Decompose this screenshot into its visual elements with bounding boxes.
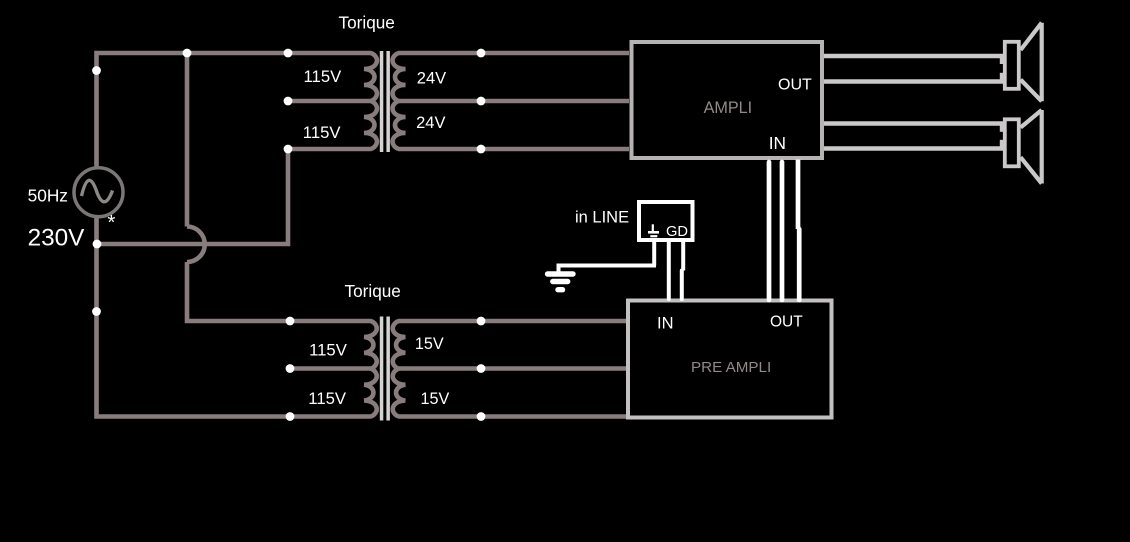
svg-text:in LINE: in LINE xyxy=(575,209,629,227)
wire: mid vertical from hop down then right to T2 primary top xyxy=(187,262,372,321)
svg-text:IN: IN xyxy=(769,133,786,153)
wire: left vertical from source bottom + bottom bus to T2 primary bottom xyxy=(97,217,372,417)
wire: source bottom branch right then up to T1 primary bottom xyxy=(97,149,372,244)
wire: T2 primary mid tap stub xyxy=(289,366,372,371)
node: top bus / mid vertical junction xyxy=(183,49,192,58)
wire: AMPLI OUT to speaker SP2 (+) xyxy=(824,121,1003,125)
wire: T2 secondary top to PRE AMPLI xyxy=(398,319,626,324)
svg-text:24V: 24V xyxy=(417,69,446,87)
svg-text:115V: 115V xyxy=(309,340,348,359)
speaker SP2 driver box xyxy=(1005,119,1019,166)
speaker SP2 horn xyxy=(1040,110,1044,184)
svg-text:OUT: OUT xyxy=(778,77,812,94)
svg-text:AMPLI: AMPLI xyxy=(704,99,753,117)
connector J1 pin 2 (to PRE AMPLI IN) xyxy=(667,242,671,299)
svg-text:24V: 24V xyxy=(416,114,445,132)
wire nib at SP2 (-) terminal xyxy=(1000,140,1003,147)
wire nib at SP2 (+) terminal xyxy=(1000,125,1003,132)
wire: AMPLI IN pin 1 to PRE AMPLI OUT xyxy=(767,162,772,300)
svg-text:115V: 115V xyxy=(308,389,347,408)
node: T1 primary top terminal xyxy=(284,49,293,58)
svg-text:115V: 115V xyxy=(303,123,342,142)
transformer T2 primary winding 115V/115V xyxy=(364,321,377,417)
node: source bottom junction xyxy=(93,240,102,249)
transformer T2 secondary winding 15V/15V xyxy=(393,321,406,417)
node: T2 secondary bottom terminal xyxy=(477,412,486,421)
wire: T1 secondary top to AMPLI xyxy=(398,51,629,56)
transformer T1 primary winding 115V/115V xyxy=(364,53,377,149)
svg-text:Torique: Torique xyxy=(339,12,395,32)
node: T1 secondary top terminal xyxy=(477,49,486,58)
svg-text:PRE AMPLI: PRE AMPLI xyxy=(691,359,771,376)
wire hop: arc over horizontal branch xyxy=(187,227,205,263)
PRE AMPLI box U2 xyxy=(628,301,832,418)
node: left vertical upper dot xyxy=(92,66,101,75)
wire: AMPLI OUT to speaker SP1 (+) xyxy=(824,54,1003,58)
wire: AMPLI OUT to speaker SP2 (-) xyxy=(824,146,1003,150)
ground symbol bar 1 xyxy=(548,271,574,276)
node: T2 secondary top terminal xyxy=(477,317,486,326)
wire: top bus from source to T1 primary top xyxy=(97,53,372,167)
wire nib at SP1 (-) terminal xyxy=(1000,73,1003,80)
svg-text:230V: 230V xyxy=(28,225,86,252)
in LINE connector J1 box xyxy=(639,202,693,240)
svg-text:OUT: OUT xyxy=(770,313,803,330)
wire: T1 secondary bottom to AMPLI xyxy=(398,147,629,152)
node: T2 primary bottom terminal xyxy=(286,412,295,421)
wire: T2 secondary bottom to PRE AMPLI xyxy=(398,414,626,419)
connector J1 pin 1 (to ground wire) xyxy=(652,242,656,266)
svg-text:*: * xyxy=(107,211,115,234)
svg-text:15V: 15V xyxy=(415,335,444,353)
wire: T1 primary mid tap stub xyxy=(288,99,372,104)
svg-text:IN: IN xyxy=(657,314,674,332)
node: T2 primary top terminal xyxy=(286,317,295,326)
wire nib at SP1 (+) terminal xyxy=(1000,57,1003,64)
wire: AMPLI IN pin 3 to PRE AMPLI OUT (with jog) xyxy=(796,160,801,230)
svg-text:115V: 115V xyxy=(304,67,343,86)
svg-text:GD: GD xyxy=(666,224,688,240)
node: left vertical lower dot xyxy=(92,307,101,316)
node: T2 secondary mid terminal xyxy=(477,364,486,373)
speaker SP1 horn xyxy=(1040,23,1044,102)
AMPLI box U1 xyxy=(632,42,823,158)
wire: T2 secondary mid to PRE AMPLI xyxy=(398,366,626,371)
svg-text:Torique: Torique xyxy=(345,281,401,301)
AC source V1 circle xyxy=(74,168,123,217)
wire: mid vertical from top bus down to hop xyxy=(185,53,190,227)
wire: AMPLI IN pin 2 to PRE AMPLI OUT xyxy=(780,162,785,300)
AC source sine symbol xyxy=(82,180,113,201)
transformer T1 core xyxy=(380,51,384,152)
node: T1 secondary bottom terminal xyxy=(477,145,486,154)
ground glyph inside J1 xyxy=(652,224,654,231)
svg-text:15V: 15V xyxy=(421,390,450,408)
ground symbol bar 3 xyxy=(558,287,563,292)
svg-text:50Hz: 50Hz xyxy=(28,185,68,205)
transformer T1 secondary winding 24V/24V xyxy=(393,53,406,149)
node: T1 secondary mid terminal xyxy=(477,97,486,106)
node: T1 primary bottom terminal xyxy=(284,145,293,154)
connector J1 pin 3 (to PRE AMPLI IN) xyxy=(681,242,685,271)
node: T2 primary mid terminal xyxy=(286,364,295,373)
wire: T1 secondary mid to AMPLI xyxy=(398,99,629,104)
speaker SP1 driver box xyxy=(1005,42,1019,89)
node: T1 primary mid terminal xyxy=(284,97,293,106)
ground symbol bar 2 xyxy=(553,279,568,284)
transformer T2 core xyxy=(380,317,384,421)
wire: ground wire from J1 pin1 xyxy=(559,266,657,273)
wire: AMPLI OUT to speaker SP1 (-) xyxy=(824,79,1003,83)
